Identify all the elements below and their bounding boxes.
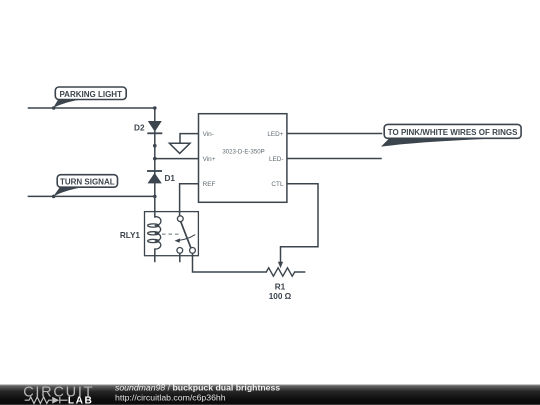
diode D1 [147, 171, 175, 183]
svg-text:TURN SIGNAL: TURN SIGNAL [60, 178, 115, 187]
svg-text:Vin-: Vin- [203, 131, 214, 138]
svg-text:REF: REF [203, 181, 216, 188]
node PARKING LIGHT flag [53, 87, 126, 108]
CircuitLab logo resistor squiggle [25, 397, 68, 404]
wire parking light net [28, 107, 154, 109]
node parking light junction dot [52, 106, 56, 110]
IC U1 LED driver 3023-D-E-350P body [199, 114, 287, 203]
relay dashed actuator link [162, 233, 182, 235]
wire Vin- to ground [180, 134, 199, 144]
node turn signal junction dot [52, 195, 56, 199]
relay NO contact [190, 248, 196, 254]
relay actuator arrow [178, 235, 195, 241]
node Vin+ junction dot [153, 157, 157, 161]
wire Vin+ net [155, 158, 199, 160]
relay RLY1 [120, 212, 199, 256]
svg-text:100 Ω: 100 Ω [269, 292, 292, 301]
svg-text:R1: R1 [275, 282, 286, 291]
svg-text:soundman98 / buckpuck dual bri: soundman98 / buckpuck dual brightness [115, 383, 280, 393]
svg-text:3023-D-E-350P: 3023-D-E-350P [222, 148, 264, 155]
resistor R1 100 ohm [266, 262, 294, 301]
wire turn signal net [28, 195, 154, 197]
wire LED+ net [287, 133, 382, 135]
wire LED- net [287, 158, 381, 160]
relay common contact [177, 216, 183, 222]
svg-text:Vin+: Vin+ [203, 156, 216, 163]
wire REF to relay common [180, 184, 199, 216]
node D2 top junction dot [153, 106, 157, 110]
node TURN SIGNAL flag [53, 175, 117, 197]
svg-text:LED-: LED- [269, 156, 284, 163]
wire relay NC contact stub [179, 253, 181, 261]
relay switch blade [181, 222, 191, 248]
svg-text:D2: D2 [134, 123, 145, 132]
wire D2/D1 vertical branch [154, 108, 156, 217]
svg-text:PARKING LIGHT: PARKING LIGHT [59, 90, 122, 99]
svg-text:RLY1: RLY1 [120, 231, 141, 240]
relay coil [148, 217, 161, 250]
wire relay coil bottom stub [154, 249, 156, 261]
svg-text:LAB: LAB [68, 396, 93, 405]
diode D2 [134, 121, 162, 133]
wire relay NO contact to R1 [193, 253, 267, 272]
svg-text:CTL: CTL [271, 181, 284, 188]
wire CTL to R1 wiper [281, 184, 319, 263]
relay NC contact [177, 248, 183, 254]
node D1 bottom junction dot [153, 195, 157, 199]
footer bar [0, 383, 540, 405]
svg-text:TO PINK/WHITE WIRES OF RINGS: TO PINK/WHITE WIRES OF RINGS [388, 128, 518, 137]
node TO PINK/WHITE WIRES OF RINGS flag [381, 124, 521, 146]
svg-text:D1: D1 [165, 174, 176, 183]
ground symbol [169, 143, 190, 153]
svg-text:LED+: LED+ [267, 131, 283, 138]
svg-text:http://circuitlab.com/c6p36hh: http://circuitlab.com/c6p36hh [115, 392, 226, 402]
wire R1 right lead [295, 271, 305, 273]
CircuitLab logo diode [52, 397, 59, 404]
node D2 cathode junction dot [153, 144, 157, 148]
